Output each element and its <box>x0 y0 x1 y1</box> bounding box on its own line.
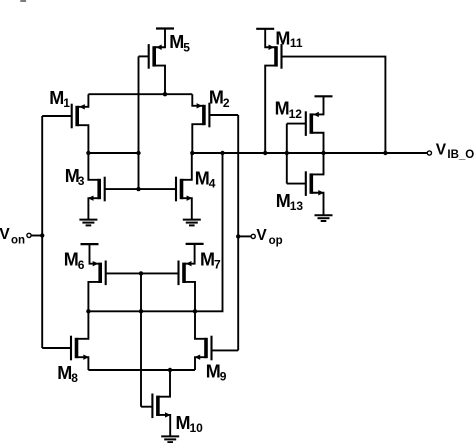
node M5 drain junction <box>163 92 167 96</box>
vdd bar above M7 <box>186 243 204 245</box>
ground under M3 <box>79 219 97 221</box>
artifact top-left gray mark <box>20 0 26 2</box>
node left drains junction <box>86 309 90 313</box>
ground under M4 <box>183 219 201 221</box>
wire M6/M7 gate link <box>106 272 179 274</box>
transistor M5 (PMOS tail source) <box>139 29 166 95</box>
transistor M1 (PMOS input left) <box>42 94 88 153</box>
wire branch down to M7/M9 drains <box>195 153 223 311</box>
node left wire end at M1 drain <box>86 151 90 155</box>
vdd bar above M5 <box>156 27 174 29</box>
node M3/M4 gate junction <box>136 187 140 191</box>
node Vop tap <box>236 234 240 238</box>
transistor M2 (PMOS input right) <box>192 94 238 153</box>
terminal V_IB_O <box>427 151 431 155</box>
node Von tap <box>40 233 44 237</box>
wire drains link row <box>88 310 195 312</box>
transistor M12 (PMOS) <box>287 96 324 153</box>
transistor M7 (PMOS diode load right) <box>179 244 196 311</box>
vdd bar above M6 <box>81 243 99 245</box>
ground under M10 <box>161 435 179 437</box>
terminal Von <box>27 233 31 237</box>
node branch to lower stage <box>220 151 224 155</box>
wire M3/M4 gate link <box>105 188 176 190</box>
node M10 drain tap <box>168 368 172 372</box>
node M12/M13 gates on rail <box>285 151 289 155</box>
transistor M11 (PMOS output mirror) <box>265 29 385 153</box>
wire left node (M1/M3 drains) <box>88 152 138 154</box>
ground under M13 <box>315 214 333 216</box>
node M5 gate line crossing <box>136 151 140 155</box>
wire Von stub <box>31 235 42 237</box>
wire output rail <box>192 152 427 154</box>
wire M12/M13 gate tie <box>286 124 288 184</box>
node M11 drain <box>263 151 267 155</box>
node M6/M7 gate junction <box>139 271 143 275</box>
wire Von left rail <box>41 116 43 348</box>
wire Vop right rail <box>237 115 239 350</box>
node right drains junction <box>193 309 197 313</box>
transistor M6 (PMOS diode load left) <box>88 244 105 311</box>
transistor M10 (NMOS tail sink) <box>141 370 171 436</box>
wire Vop stub <box>238 235 251 237</box>
wire M1/M2 common source rail <box>88 93 192 95</box>
node M2/M4 drains <box>190 151 194 155</box>
wire center vertical to M10 gate <box>140 273 142 406</box>
wire M5 gate vertical <box>138 56 140 189</box>
wire M8/M9 common source row <box>88 369 195 371</box>
transistor M8 (NMOS input left) <box>42 311 89 370</box>
transistor M3 (NMOS mirror left) <box>88 153 105 220</box>
transistor M13 (NMOS) <box>287 153 324 215</box>
node M11 gate loop <box>383 151 387 155</box>
node M12/M13 drains on rail <box>321 151 325 155</box>
transistor M4 (NMOS mirror right) <box>176 153 192 220</box>
node center drains junction <box>139 309 143 313</box>
vdd bar above M11 <box>256 28 274 30</box>
terminal Vop <box>251 234 255 238</box>
vdd bar above M12 <box>315 95 333 97</box>
transistor M9 (NMOS input right) <box>195 311 239 370</box>
